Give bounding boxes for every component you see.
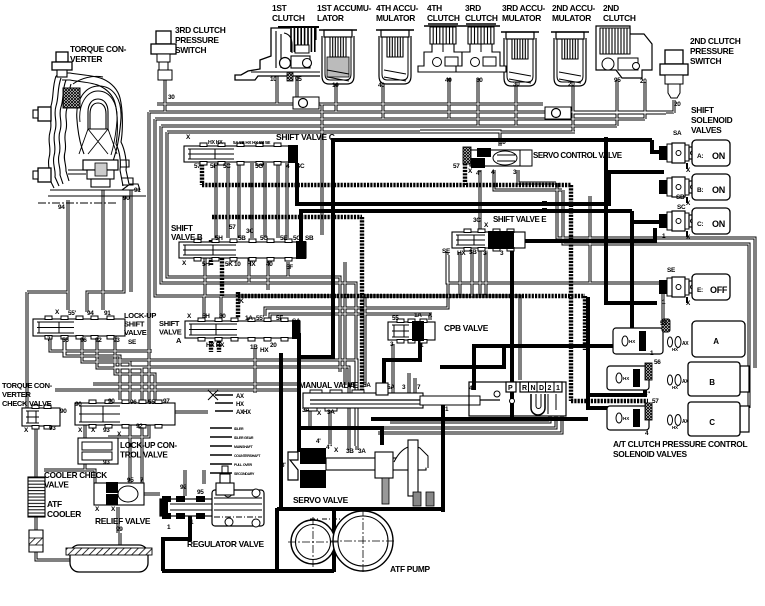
svg-text:90: 90 — [108, 398, 115, 405]
svg-text:93: 93 — [49, 425, 56, 432]
svg-text:4': 4' — [316, 438, 321, 445]
svg-text:PRESSURE: PRESSURE — [690, 46, 734, 56]
svg-text:A: A — [713, 337, 719, 346]
svg-text:SHIFT VALVE C: SHIFT VALVE C — [276, 132, 335, 142]
svg-text:SHIFT: SHIFT — [171, 224, 193, 233]
svg-text:E:: E: — [697, 287, 703, 294]
svg-text:5H: 5H — [210, 163, 218, 170]
svg-text:40: 40 — [378, 82, 385, 89]
svg-text:99: 99 — [116, 526, 123, 533]
svg-text:55': 55' — [68, 310, 77, 317]
svg-text:3A: 3A — [327, 409, 335, 416]
svg-text:55: 55 — [62, 337, 69, 344]
svg-text:92: 92 — [136, 423, 143, 430]
svg-text:ON: ON — [712, 151, 725, 161]
svg-text:93: 93 — [113, 337, 120, 344]
svg-text:SECONDARY: SECONDARY — [234, 472, 255, 476]
svg-text:3C: 3C — [246, 228, 254, 235]
svg-text:TORQUE CON-: TORQUE CON- — [2, 381, 53, 390]
svg-text:SB: SB — [305, 235, 314, 242]
svg-text:PULL OVER: PULL OVER — [234, 463, 253, 467]
svg-text:5K: 5K — [236, 298, 244, 305]
svg-text:LOCK-UP CON-: LOCK-UP CON- — [120, 441, 177, 450]
svg-text:CLUTCH: CLUTCH — [603, 13, 636, 23]
svg-text:93: 93 — [103, 427, 110, 434]
svg-text:57: 57 — [453, 163, 460, 170]
svg-text:A: A — [176, 336, 182, 345]
svg-text:1A: 1A — [414, 312, 422, 319]
svg-text:57: 57 — [229, 224, 236, 231]
svg-text:IDLER GEAR: IDLER GEAR — [234, 436, 254, 440]
svg-text:5C: 5C — [293, 235, 301, 242]
svg-text:40: 40 — [445, 77, 452, 84]
svg-text:ATF: ATF — [47, 499, 62, 509]
svg-text:AX: AX — [236, 394, 244, 400]
svg-text:MAINSHAFT: MAINSHAFT — [234, 445, 254, 449]
svg-text:C:: C: — [697, 221, 703, 228]
svg-text:COOLER CHECK: COOLER CHECK — [44, 471, 107, 480]
svg-text:SHIFT VALVE E: SHIFT VALVE E — [493, 215, 547, 224]
svg-text:97: 97 — [163, 398, 170, 405]
svg-text:SA: SA — [292, 318, 301, 325]
svg-text:2ND ACCU-: 2ND ACCU- — [552, 3, 596, 13]
svg-text:91: 91 — [104, 310, 111, 317]
svg-text:SC: SC — [677, 204, 686, 211]
svg-text:57: 57 — [194, 163, 201, 170]
svg-text:96: 96 — [80, 337, 87, 344]
svg-text:3B: 3B — [469, 249, 477, 256]
svg-text:CLUTCH: CLUTCH — [465, 13, 498, 23]
svg-text:3RD CLUTCH: 3RD CLUTCH — [175, 25, 226, 35]
svg-text:HX: HX — [623, 416, 629, 421]
svg-text:C: C — [709, 418, 715, 427]
svg-text:A:: A: — [697, 153, 703, 160]
svg-text:55': 55' — [256, 315, 265, 322]
svg-text:SE: SE — [442, 248, 451, 255]
svg-text:5H: 5H — [202, 261, 210, 268]
svg-text:ATF PUMP: ATF PUMP — [390, 564, 430, 574]
svg-text:10: 10 — [270, 76, 277, 83]
svg-text:30: 30 — [219, 313, 226, 320]
svg-text:95: 95 — [614, 77, 621, 84]
svg-text:SOLENOID VALVES: SOLENOID VALVES — [613, 449, 688, 459]
svg-text:ON: ON — [712, 219, 725, 229]
svg-text:SWITCH: SWITCH — [690, 56, 721, 66]
svg-text:TROL VALVE: TROL VALVE — [120, 451, 168, 460]
svg-text:5G: 5G — [255, 163, 263, 170]
svg-text:MULATOR: MULATOR — [502, 13, 541, 23]
svg-text:3RD: 3RD — [465, 3, 481, 13]
svg-text:HX: HX — [260, 347, 269, 354]
svg-text:N: N — [531, 385, 536, 392]
svg-text:SHIFT: SHIFT — [691, 105, 715, 115]
svg-text:SERVO VALVE: SERVO VALVE — [293, 495, 349, 505]
svg-text:B: B — [709, 378, 715, 387]
svg-text:D: D — [539, 385, 544, 392]
svg-text:MULATOR: MULATOR — [552, 13, 591, 23]
svg-text:SA: SA — [673, 130, 682, 137]
svg-text:ON: ON — [712, 185, 725, 195]
svg-text:VALVES: VALVES — [691, 125, 722, 135]
svg-text:5E: 5E — [280, 235, 288, 242]
svg-text:HX: HX — [672, 425, 678, 430]
svg-text:4": 4" — [326, 444, 332, 451]
svg-text:HX: HX — [236, 402, 244, 408]
svg-text:3A: 3A — [302, 407, 310, 414]
svg-text:94: 94 — [87, 310, 94, 317]
svg-text:96: 96 — [130, 399, 137, 406]
svg-text:10: 10 — [499, 139, 506, 146]
svg-text:CLUTCH: CLUTCH — [427, 13, 460, 23]
svg-text:3': 3' — [281, 462, 286, 469]
svg-text:5K 10: 5K 10 — [225, 261, 241, 268]
svg-text:CHECK VALVE: CHECK VALVE — [2, 399, 52, 408]
svg-text:20: 20 — [674, 101, 681, 108]
svg-text:R: R — [522, 385, 527, 392]
svg-text:20: 20 — [568, 81, 575, 88]
svg-text:3': 3' — [483, 250, 488, 257]
svg-text:VERTER: VERTER — [2, 390, 32, 399]
svg-text:LATOR: LATOR — [317, 13, 344, 23]
svg-text:3B: 3B — [346, 448, 354, 455]
svg-text:RELIEF VALVE: RELIEF VALVE — [95, 516, 151, 526]
svg-text:10: 10 — [332, 82, 339, 89]
svg-text:AX: AX — [682, 419, 689, 425]
svg-text:92: 92 — [95, 337, 102, 344]
svg-text:3A: 3A — [358, 448, 366, 455]
svg-text:PRESSURE: PRESSURE — [175, 35, 219, 45]
svg-text:HX: HX — [243, 410, 251, 416]
svg-text:91: 91 — [134, 187, 141, 194]
svg-text:1ST ACCUMU-: 1ST ACCUMU- — [317, 3, 372, 13]
svg-text:VALVE: VALVE — [44, 481, 69, 490]
svg-text:4': 4' — [476, 170, 481, 177]
svg-text:5A 5B HX HX 5B 5E: 5A 5B HX HX 5B 5E — [233, 140, 270, 145]
svg-text:SOLENOID: SOLENOID — [691, 115, 733, 125]
svg-text:B:: B: — [697, 187, 703, 194]
svg-text:90: 90 — [75, 401, 82, 408]
svg-text:HX: HX — [623, 376, 629, 381]
svg-text:4TH: 4TH — [427, 3, 442, 13]
svg-text:93: 93 — [103, 459, 110, 466]
svg-text:HX: HX — [672, 385, 678, 390]
svg-text:90: 90 — [60, 408, 67, 415]
svg-text:55: 55 — [148, 399, 155, 406]
svg-text:HX: HX — [672, 347, 678, 352]
svg-text:HX: HX — [457, 250, 466, 257]
svg-text:COUNTERSHAFT: COUNTERSHAFT — [234, 454, 261, 458]
svg-text:HX HX: HX HX — [206, 342, 225, 349]
svg-text:CPB VALVE: CPB VALVE — [444, 323, 489, 333]
svg-text:SE: SE — [667, 267, 676, 274]
svg-text:5F: 5F — [286, 264, 293, 271]
svg-text:94: 94 — [58, 204, 65, 211]
svg-text:90: 90 — [123, 195, 130, 202]
svg-text:40: 40 — [266, 261, 273, 268]
svg-text:VERTER: VERTER — [70, 54, 102, 64]
svg-text:HX: HX — [629, 339, 635, 344]
svg-text:5H: 5H — [202, 313, 210, 320]
svg-text:2: 2 — [548, 385, 552, 392]
svg-text:HX HX: HX HX — [208, 140, 223, 146]
svg-text:TORQUE CON-: TORQUE CON- — [70, 44, 127, 54]
svg-text:30: 30 — [476, 77, 483, 84]
svg-text:4": 4" — [644, 391, 650, 398]
svg-text:4TH ACCU-: 4TH ACCU- — [376, 3, 419, 13]
svg-text:92: 92 — [180, 484, 187, 491]
svg-text:95: 95 — [295, 76, 302, 83]
svg-text:SERVO CONTROL VALVE: SERVO CONTROL VALVE — [533, 151, 623, 160]
svg-text:SC: SC — [296, 163, 305, 170]
svg-text:CLUTCH: CLUTCH — [272, 13, 305, 23]
svg-text:2ND CLUTCH: 2ND CLUTCH — [690, 36, 741, 46]
svg-text:SE: SE — [128, 339, 137, 346]
svg-text:2ND: 2ND — [603, 3, 619, 13]
svg-text:P: P — [508, 385, 513, 392]
svg-text:5A: 5A — [363, 382, 371, 389]
svg-text:1A: 1A — [245, 315, 253, 322]
svg-text:IDLER: IDLER — [234, 427, 244, 431]
svg-text:1: 1 — [556, 385, 560, 392]
svg-text:1B: 1B — [347, 382, 355, 389]
svg-text:5C: 5C — [223, 163, 231, 170]
svg-text:SB: SB — [676, 194, 685, 201]
svg-text:OFF: OFF — [710, 285, 728, 295]
svg-text:3C: 3C — [473, 217, 481, 224]
svg-text:56: 56 — [654, 359, 661, 366]
svg-text:AX: AX — [682, 341, 689, 347]
svg-text:30: 30 — [168, 94, 175, 101]
svg-text:AX: AX — [682, 379, 689, 385]
svg-text:SWITCH: SWITCH — [175, 45, 206, 55]
svg-text:1B: 1B — [250, 344, 258, 351]
svg-text:3RD ACCU-: 3RD ACCU- — [502, 3, 546, 13]
svg-text:1ST: 1ST — [272, 3, 288, 13]
svg-text:30: 30 — [513, 81, 520, 88]
svg-text:95: 95 — [197, 489, 204, 496]
svg-text:5F: 5F — [276, 315, 283, 322]
svg-text:HX: HX — [247, 261, 256, 268]
svg-text:5H: 5H — [215, 235, 223, 242]
svg-text:55: 55 — [392, 315, 399, 322]
svg-text:VALVE B: VALVE B — [171, 233, 203, 242]
svg-text:COOLER: COOLER — [47, 509, 81, 519]
svg-text:57: 57 — [652, 398, 659, 405]
svg-text:A/T CLUTCH PRESSURE CONTROL: A/T CLUTCH PRESSURE CONTROL — [613, 439, 747, 449]
svg-text:VALVE: VALVE — [124, 328, 147, 337]
svg-text:5B: 5B — [238, 235, 246, 242]
svg-text:20: 20 — [270, 342, 277, 349]
svg-text:95: 95 — [127, 477, 134, 484]
svg-text:5A: 5A — [387, 384, 395, 391]
svg-text:MULATOR: MULATOR — [376, 13, 415, 23]
svg-text:20: 20 — [640, 78, 647, 85]
svg-text:55: 55 — [660, 320, 667, 327]
svg-text:5G: 5G — [260, 235, 268, 242]
svg-text:REGULATOR VALVE: REGULATOR VALVE — [187, 539, 264, 549]
